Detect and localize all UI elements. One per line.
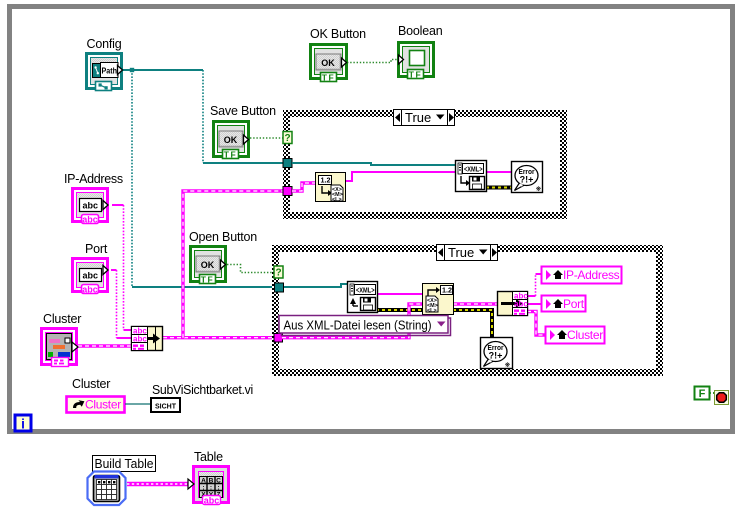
wire cluster Cluster control to bundle (78, 344, 131, 347)
svg-text:Table: Table (194, 450, 223, 464)
express VI Build Table (88, 456, 156, 506)
wire cluster Unflatten to Unbundle (453, 302, 498, 305)
wire path case1 tunnel to Write XML node (292, 163, 456, 165)
svg-text:IP-Address: IP-Address (64, 172, 123, 186)
svg-text:IP-Address: IP-Address (563, 268, 620, 282)
svg-text:SICHT: SICHT (155, 404, 177, 411)
svg-text:<XML>: <XML> (464, 164, 483, 173)
svg-text:TF: TF (224, 149, 237, 159)
wire string Unbundle to Port local (527, 303, 542, 305)
svg-text:abc: abc (204, 496, 220, 506)
svg-text:Port: Port (85, 242, 108, 256)
svg-text:OK: OK (201, 260, 215, 270)
tunnel case1 selector ? (283, 132, 292, 145)
svg-text:True: True (448, 245, 474, 260)
svg-text:1.2: 1.2 (321, 178, 331, 185)
svg-text::: : (217, 485, 219, 492)
node enum constant Aus XML-Datei lesen (String) (279, 316, 451, 336)
svg-text:❋: ❋ (505, 361, 511, 369)
wire string IP-Address to bundle (112, 205, 131, 330)
svg-text:?!+: ?!+ (489, 351, 503, 361)
wire cluster bundle output to case2 tunnel (163, 336, 277, 339)
control IP-Address (string) (64, 172, 123, 224)
svg-text:TF: TF (409, 69, 422, 79)
wire string Flatten to Write XML (345, 172, 456, 181)
local variable Port (542, 296, 586, 312)
local variable Cluster (bottom) (67, 377, 125, 413)
case structure 2 (Open) border (272, 245, 663, 376)
node Bundle By Name (132, 327, 163, 351)
wire path into case2 tunnel (132, 286, 277, 288)
node Write to XML File (456, 161, 487, 192)
svg-text::: : (210, 485, 212, 492)
control OK Button (top) (310, 27, 366, 82)
svg-text:TF: TF (201, 274, 214, 284)
wire boolean Open Button to case2 (227, 265, 274, 273)
svg-text:abc: abc (133, 335, 147, 344)
wire error Unflatten to Error handler 2 (453, 310, 492, 338)
subVI SubViSichtbarket.vi (151, 383, 253, 412)
svg-text:?: ? (275, 268, 281, 279)
loop condition stop terminal (715, 391, 729, 405)
node Unbundle By Name (498, 292, 529, 316)
svg-text:SubViSichtbarket.vi: SubViSichtbarket.vi (152, 383, 253, 397)
tunnel case1 cluster (magenta) (283, 187, 292, 196)
wire string Unbundle to IP-Address local (527, 274, 542, 296)
wire string Write XML to Error handler 1 (486, 171, 512, 173)
svg-text:abc: abc (82, 214, 98, 224)
tunnel case2 path (teal) (275, 283, 284, 292)
node Simple Error Handler case1 (512, 162, 543, 194)
svg-text:A: A (201, 478, 206, 485)
svg-text:Boolean: Boolean (398, 24, 443, 38)
control Cluster (42, 312, 82, 367)
tunnel case2 cluster (magenta) (274, 334, 283, 343)
boolean constant F (695, 387, 710, 401)
junction path wire (130, 68, 134, 72)
svg-text:<XML>: <XML> (356, 285, 375, 294)
wire path branch vertical to case2 (131, 70, 133, 287)
svg-text:?: ? (284, 133, 290, 144)
node Read from XML File (348, 282, 378, 313)
svg-text:Cluster: Cluster (85, 398, 121, 412)
svg-text:1.2: 1.2 (442, 288, 452, 295)
tunnel case1 path (teal) (283, 159, 292, 168)
svg-text:abc: abc (83, 271, 99, 281)
local variable Cluster (546, 327, 605, 344)
svg-text::: : (202, 485, 204, 492)
svg-text:OK: OK (224, 135, 238, 145)
wire 2D string array Build Table to Table (127, 482, 190, 486)
wire path vertical to case1 (202, 70, 204, 163)
svg-text:Cluster: Cluster (43, 312, 81, 326)
svg-text:abc: abc (514, 300, 528, 309)
wire cluster branch up to case1 tunnel (183, 191, 285, 338)
svg-text:abc: abc (83, 201, 99, 211)
wire boolean Save Button to case1 (250, 137, 283, 139)
control Config (path) (87, 37, 123, 91)
wire cluster case1 tunnel to Flatten node (292, 183, 316, 191)
svg-text:<L>: <L> (427, 308, 437, 314)
wire string Port to bundle (111, 270, 131, 338)
svg-text:?!+: ?!+ (520, 175, 534, 185)
svg-text:❋: ❋ (536, 185, 542, 193)
svg-text:OK: OK (321, 58, 335, 68)
case structure 1 selector label True (394, 110, 455, 126)
svg-text:F: F (699, 388, 706, 400)
wire path case2 tunnel to Read XML node (284, 284, 348, 287)
wire boolean OK Button to Boolean (347, 60, 398, 63)
svg-text:B: B (209, 478, 214, 485)
wire error Read XML to Unflatten (376, 308, 423, 312)
svg-text:Path: Path (102, 66, 118, 76)
svg-text:Aus XML-Datei lesen (String): Aus XML-Datei lesen (String) (284, 318, 432, 333)
svg-text:Config: Config (87, 37, 122, 51)
node Unflatten From XML (XML -> 1.2) (423, 284, 454, 315)
wire cluster Unbundle to Cluster local (527, 312, 546, 336)
svg-text:Build Table: Build Table (95, 457, 154, 471)
node Simple Error Handler case2 (481, 338, 513, 370)
wire F to stop terminal (710, 392, 715, 394)
svg-text:C: C (216, 478, 221, 485)
svg-text:True: True (405, 110, 431, 125)
svg-text:TF: TF (322, 72, 335, 82)
svg-text:OK Button: OK Button (310, 27, 366, 41)
wire refnum Cluster local to SubVi (125, 403, 151, 405)
svg-text:Open Button: Open Button (189, 230, 257, 244)
tunnel case2 selector ? (274, 266, 283, 279)
case structure 1 (Save) border (283, 110, 567, 219)
wire string Read XML to Unflatten (376, 293, 423, 295)
wire path into case1 tunnel (203, 162, 285, 164)
local variable IP-Address (542, 267, 622, 284)
wire cluster type from dropdown area to Unflatten (282, 304, 423, 338)
control Port (string) (73, 242, 109, 294)
svg-text:Cluster: Cluster (72, 377, 110, 391)
indicator Table (188, 450, 229, 506)
svg-text:abc: abc (82, 284, 98, 294)
wire error Write XML to Error handler 1 (486, 186, 512, 190)
case structure 2 selector label True (437, 245, 498, 261)
control Save Button (210, 104, 276, 159)
svg-text:<L>: <L> (332, 197, 342, 203)
svg-text:i: i (21, 417, 25, 432)
svg-text:Port: Port (563, 297, 585, 311)
node Flatten To XML (1.2 -> XML) (316, 173, 346, 204)
wire path Config horizontal (122, 69, 203, 71)
iteration terminal i (15, 415, 31, 432)
control Open Button (189, 230, 257, 284)
svg-text:Save Button: Save Button (210, 104, 276, 118)
svg-text:Cluster: Cluster (567, 328, 603, 342)
indicator Boolean (398, 24, 443, 79)
